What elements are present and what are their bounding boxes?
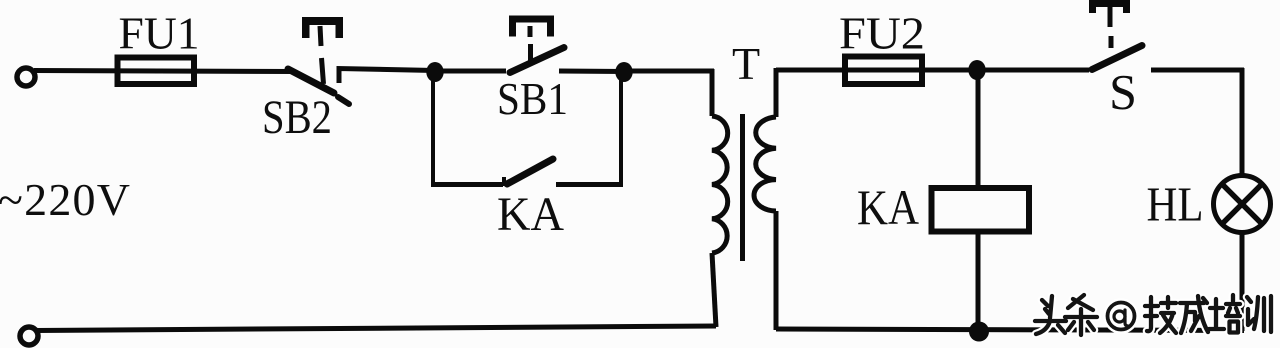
node B — [615, 62, 632, 82]
svg-text:SB1: SB1 — [497, 73, 568, 124]
wire switch S to corner — [1151, 68, 1244, 73]
wire bottom left (terminal to transformer primary) — [36, 326, 716, 331]
transformer T primary top lead — [710, 69, 715, 116]
node C — [968, 60, 985, 80]
svg-text:SB2: SB2 — [262, 91, 332, 144]
wire node A to SB1 — [435, 69, 506, 74]
transformer T secondary winding — [754, 117, 776, 211]
svg-text:FU1: FU1 — [119, 8, 200, 59]
terminal L1 (top-left input) — [17, 68, 35, 86]
pushbutton SB1 moving arm — [510, 48, 564, 73]
lamp HL circle — [1214, 176, 1271, 233]
switch S moving arm — [1092, 46, 1142, 70]
pushbutton SB2 stem (dashed) — [320, 26, 324, 84]
svg-text:~220V: ~220V — [0, 174, 130, 225]
wire top-left to SB2 (passes through FU1) — [34, 71, 294, 72]
wire node B to transformer — [624, 69, 714, 74]
relay coil KA box — [932, 188, 1030, 232]
wire node C to switch S — [977, 68, 1089, 73]
pushbutton SB2 fixed contact and wire to node A — [339, 69, 435, 84]
wire lamp to bottom — [1240, 230, 1245, 331]
contact KA left tick — [502, 177, 506, 186]
lamp HL cross — [1222, 184, 1262, 224]
fuse FU2 — [845, 57, 922, 85]
node D (bottom, KA coil junction) — [969, 322, 989, 342]
wire corner down to lamp — [1240, 68, 1245, 178]
pushbutton SB1 stem (dashed) — [528, 26, 534, 61]
pushbutton SB2 moving arm — [288, 69, 334, 93]
wire: KA branch left riser — [431, 72, 435, 186]
transformer T secondary bottom lead — [774, 211, 779, 330]
relay coil KA riser (top) — [976, 70, 981, 186]
wire SB1 to node B — [559, 69, 624, 75]
fuse FU1 — [118, 58, 195, 85]
switch S stem (dashed) — [1110, 7, 1111, 48]
svg-text:S: S — [1109, 64, 1137, 120]
svg-text:KA: KA — [857, 179, 919, 235]
switch S actuator cap — [1089, 0, 1130, 13]
wire: KA branch bottom right — [556, 182, 623, 187]
terminal L2 (bottom-left input) — [20, 327, 38, 345]
transformer T primary bottom lead — [712, 253, 716, 327]
pushbutton SB1 (NO) actuator cap — [509, 16, 554, 37]
svg-text:T: T — [732, 38, 760, 89]
node A — [426, 62, 443, 82]
watermark 头条@技成培训 — [1035, 295, 1271, 335]
svg-text:KA: KA — [497, 188, 564, 241]
pushbutton SB2 (NC) actuator cap — [302, 17, 343, 38]
relay coil KA riser (bottom) — [976, 234, 981, 331]
contact KA moving arm — [507, 159, 553, 184]
wire secondary to node C (passes through FU2) — [776, 68, 977, 73]
transformer T core — [740, 114, 745, 261]
svg-text:HL: HL — [1147, 177, 1204, 232]
wire: KA branch bottom left — [431, 182, 503, 187]
transformer T secondary top lead — [774, 68, 779, 117]
wire bottom right (transformer secondary to lamp) — [776, 329, 1244, 331]
transformer T primary winding — [712, 116, 728, 253]
wire: KA branch right riser — [619, 72, 623, 186]
pushbutton SB2 arm tick — [338, 97, 349, 104]
svg-text:FU2: FU2 — [839, 8, 925, 59]
